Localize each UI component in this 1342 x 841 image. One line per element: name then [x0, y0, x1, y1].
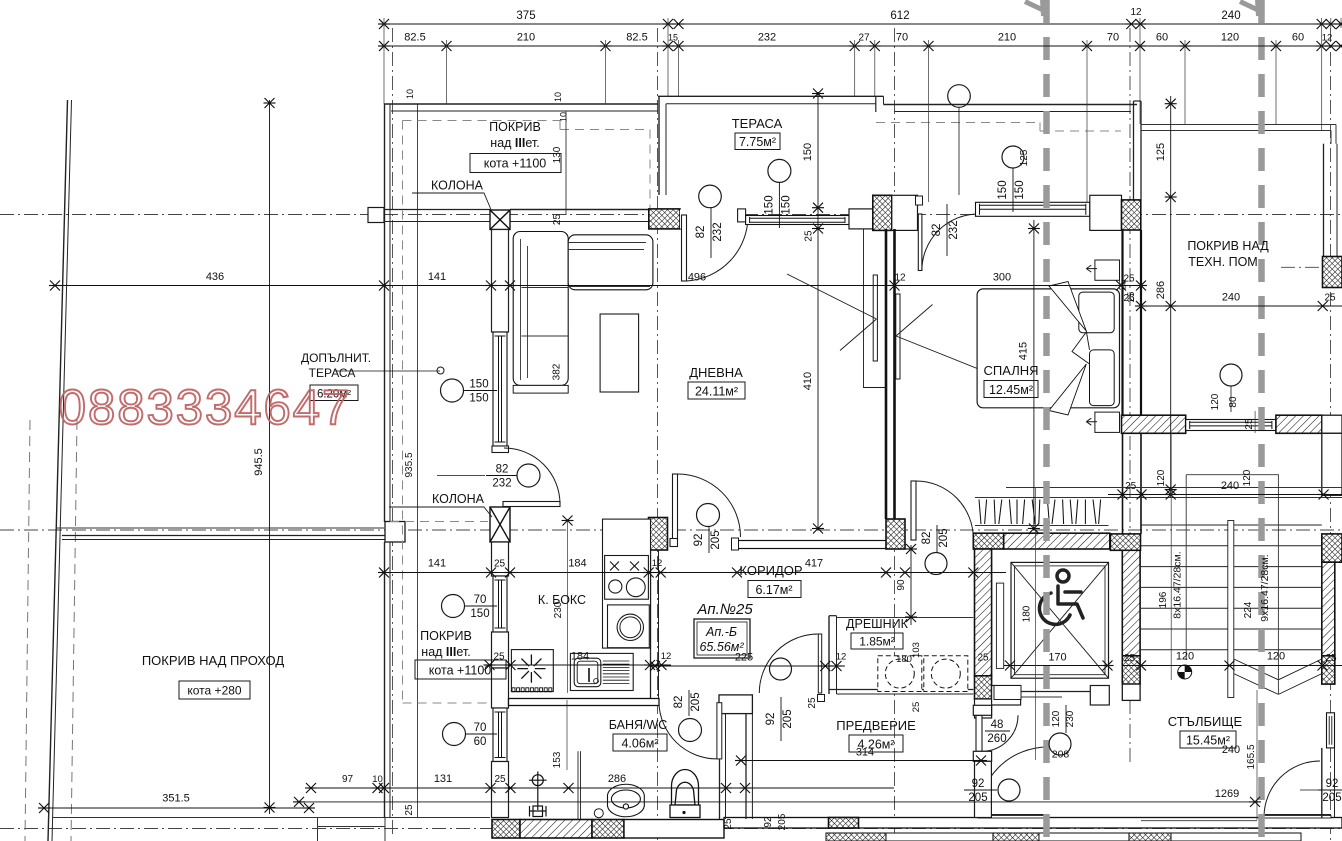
svg-text:25: 25 [1118, 280, 1129, 291]
svg-text:82.5: 82.5 [626, 32, 647, 44]
svg-text:97: 97 [342, 774, 354, 785]
svg-text:82: 82 [931, 224, 943, 237]
svg-text:70: 70 [474, 722, 487, 734]
svg-text:ПОКРИВ НАД ПРОХОД: ПОКРИВ НАД ПРОХОД [142, 653, 285, 668]
svg-text:25: 25 [1244, 418, 1255, 430]
stairwell east window lower [1327, 713, 1335, 748]
corridor west door swing arc [678, 474, 741, 537]
bath predverie wall block top [719, 695, 752, 714]
svg-text:120: 120 [1267, 651, 1285, 663]
roof inner edge line at 130 marker [565, 111, 567, 215]
svg-text:205: 205 [777, 813, 788, 830]
svg-text:ДРЕШНИК: ДРЕШНИК [846, 617, 909, 631]
elevator car box [1011, 562, 1109, 678]
stair landing edge lines [1006, 487, 1342, 489]
stairwell east wall crosshatched block lower [1322, 656, 1335, 684]
axis grid line D vertical [1129, 28, 1131, 762]
svg-text:150: 150 [780, 195, 792, 214]
stairwell east wall crosshatched block upper [1322, 534, 1342, 562]
washing machine dashed circle 1 [885, 659, 914, 688]
bed pillow top [1079, 292, 1114, 333]
washbasin oval [608, 784, 645, 817]
elevator guide rail rectangle [996, 583, 1003, 668]
axis grid line 1 horizontal [0, 214, 1342, 216]
toilet bowl [670, 770, 700, 818]
svg-text:92: 92 [693, 534, 705, 547]
svg-text:12: 12 [1130, 7, 1142, 18]
nightstand bottom with arrow [1095, 412, 1120, 432]
svg-text:60: 60 [1156, 32, 1168, 44]
tech south window 120/80 [1186, 420, 1276, 431]
svg-text:205: 205 [690, 692, 702, 711]
nightstand top with arrow [1095, 260, 1120, 280]
svg-text:82: 82 [496, 464, 509, 476]
sliding door panel living side [873, 275, 877, 361]
dryer dashed square 2 [924, 656, 968, 692]
svg-text:205: 205 [938, 528, 950, 547]
white pier east of terrace window [849, 209, 873, 229]
svg-text:935.5: 935.5 [404, 452, 415, 477]
leader dot additional terrace [335, 370, 440, 372]
dressing room south wall double line [829, 689, 973, 691]
marker circle tech room window 120/80 [1220, 364, 1242, 386]
white pier east of bedroom window [1090, 195, 1122, 230]
svg-text:12: 12 [836, 652, 847, 663]
roof dashed outline right vertical at axis B [649, 130, 651, 209]
svg-text:224: 224 [1243, 601, 1254, 618]
svg-text:0883334647: 0883334647 [59, 381, 352, 435]
dressing door swing arc [759, 634, 818, 693]
svg-text:1269: 1269 [1215, 788, 1239, 800]
dimension row kitchen 25 184 12 [485, 664, 671, 666]
svg-text:Ап.№25: Ап.№25 [696, 601, 753, 618]
marker circle living entry door 82/232 [517, 464, 540, 487]
svg-text:25: 25 [494, 559, 506, 570]
dimension 415 vertical bedroom [1033, 220, 1035, 530]
stairwell bottom boundary thin line [1141, 820, 1257, 822]
marker circle kitchen window 70/150 [442, 595, 465, 618]
sliding door swing diagonals living [787, 274, 877, 319]
svg-text:240: 240 [1222, 292, 1240, 304]
marker circle bath door 82/205 rotated [679, 719, 702, 742]
label terrace area box 7.75 [735, 133, 780, 150]
marker circle bedroom terrace door 82/232 rotated [948, 85, 971, 108]
tech room east wall double line [1323, 144, 1325, 257]
svg-text:12: 12 [894, 273, 906, 284]
south wall diagonal hatched segment under bath [520, 820, 592, 839]
svg-text:4.26м²: 4.26м² [857, 738, 894, 752]
lower floor wall outline below south wall left [318, 818, 386, 841]
svg-text:170: 170 [1048, 652, 1066, 664]
svg-text:25: 25 [804, 230, 815, 242]
site boundary dashed line left [25, 420, 30, 841]
svg-text:410: 410 [802, 372, 814, 390]
corridor south partition wall with end blocks [737, 541, 886, 549]
tech room east crosshatched block [1323, 257, 1342, 288]
svg-text:92: 92 [972, 778, 985, 790]
dimension 170 elevator [1009, 665, 1109, 667]
svg-text:120: 120 [1221, 32, 1239, 44]
dimension 120 230 208 elevator bottom [1034, 488, 1036, 761]
section line S2 top diagonal mark [1240, 2, 1258, 11]
tech south wall hatched segment east [1276, 415, 1322, 433]
sink drainboard lines [603, 661, 630, 683]
dimension 225 12 predverie [655, 665, 845, 667]
svg-text:382: 382 [552, 363, 563, 380]
bedroom door leaf 82/205 [911, 481, 916, 540]
svg-text:232: 232 [492, 478, 511, 490]
dimension row stairs top 25 240 [1108, 494, 1342, 496]
svg-text:ДОПЪЛНИТ.: ДОПЪЛНИТ. [301, 351, 371, 365]
svg-text:612: 612 [890, 10, 909, 22]
roof over IIIrd floor top wall inner line [391, 110, 658, 112]
washbasin faucet circle [594, 809, 603, 818]
svg-text:ПОКРИВ НАД: ПОКРИВ НАД [1187, 239, 1269, 253]
svg-text:417: 417 [805, 558, 823, 570]
dimension extension verticals from top rows [383, 18, 385, 104]
svg-text:103: 103 [911, 642, 922, 658]
svg-text:кота +280: кота +280 [187, 684, 242, 698]
svg-text:205: 205 [968, 792, 987, 804]
dotted strip under kitchen niche [512, 688, 552, 692]
terrace door swing arc 82/232 [687, 216, 749, 281]
svg-text:945.5: 945.5 [253, 448, 265, 476]
sliding door swing diagonals bedroom [896, 305, 933, 337]
shaft east wall opening jambs [973, 705, 991, 715]
svg-text:25: 25 [1126, 292, 1137, 303]
axis grid line A vertical [392, 28, 394, 838]
label Ap-B box double border [694, 619, 750, 658]
dimension 410 vertical living [817, 92, 819, 530]
bedroom entrance door leaf from terrace [918, 214, 922, 271]
dressing room north boundary thin line [837, 617, 974, 619]
west boundary wall lower segment [384, 542, 386, 818]
stair treads upper flight [1141, 524, 1322, 526]
bedroom south window [976, 202, 1090, 216]
stairwell west wall crosshatched block [1110, 534, 1140, 550]
terrace west wall double line [658, 96, 660, 195]
bed blanket fold triangles [1049, 282, 1090, 416]
kitchen sink counter outline [570, 653, 633, 690]
stairwell east wall white segment top [1322, 433, 1342, 495]
svg-text:230: 230 [1065, 710, 1076, 727]
bedroom door swing arc [916, 481, 973, 539]
stairwell south east wall bottom piece [1321, 748, 1323, 818]
roof dashed outline over terrace right part [876, 122, 1040, 124]
stair direction V lines lower flight [1234, 674, 1279, 695]
svg-text:70: 70 [1107, 32, 1119, 44]
elevator shaft top wall crosshatched block west [973, 533, 1003, 549]
label kota +1100 box kitchen side [415, 660, 506, 679]
marker circle bedroom window 150/150 rotated [1002, 146, 1024, 168]
svg-text:125: 125 [1155, 143, 1167, 161]
bedroom entrance door swing arc [922, 214, 979, 271]
kitchen oven block with circle [608, 605, 650, 648]
svg-text:КОЛОНА: КОЛОНА [431, 179, 484, 193]
svg-text:82: 82 [921, 532, 933, 545]
stair walk line start circle [1178, 665, 1192, 679]
elevator shaft top wall diagonal band [1004, 533, 1110, 549]
svg-text:ДНЕВНА: ДНЕВНА [689, 365, 743, 380]
svg-text:240: 240 [1221, 10, 1240, 22]
axis grid line 3 horizontal [0, 828, 1342, 830]
tech south wall white block at east end [1322, 415, 1342, 433]
door hinge block west wall [492, 446, 509, 453]
dimension row stairs bottom 120 120 25 [1122, 665, 1342, 667]
dryer dashed circle 2 [931, 659, 960, 688]
dimension 945.5 vertical line [269, 100, 271, 814]
west wall solid segment between windows [492, 632, 509, 668]
column K3 crosshatched at bedroom NE corner [1122, 200, 1141, 230]
column outline left of divider [864, 229, 887, 388]
elevator shaft west wall bottom white [975, 699, 992, 718]
svg-text:150: 150 [1014, 180, 1026, 199]
wheelchair accessibility symbol [1039, 570, 1083, 624]
svg-text:82: 82 [695, 226, 707, 239]
axis grid line 2 horizontal [0, 529, 1342, 531]
dimension 1269 bottom [297, 801, 1257, 803]
washing machine dashed square 1 [878, 656, 922, 692]
elevator car diagonals [1011, 562, 1109, 678]
svg-text:ТЕРАСА: ТЕРАСА [732, 116, 783, 131]
svg-text:70: 70 [474, 594, 487, 606]
sofa seat division lines [522, 287, 569, 289]
svg-text:25: 25 [404, 804, 415, 816]
living bedroom divider wall thick lines [885, 229, 888, 519]
svg-text:415: 415 [1018, 342, 1030, 360]
living room entry door swing arc 82/232 [504, 448, 560, 504]
kitchen niche box with star symbol [511, 650, 553, 692]
corridor west door hinge block [670, 539, 678, 547]
svg-text:ПОКРИВ: ПОКРИВ [420, 629, 472, 643]
axis grid line B vertical [657, 28, 659, 841]
bath door leaf 82/205 [717, 703, 722, 759]
bedroom top wall outer line [884, 104, 1138, 106]
svg-text:К. БОКС: К. БОКС [538, 593, 586, 607]
svg-text:кота +1100: кота +1100 [484, 157, 547, 171]
west wall solid segment kitchen upper [492, 542, 509, 576]
elevator door slide lines [1021, 691, 1090, 693]
living room north wall solid segment [510, 209, 649, 211]
top dimension chain row 2 [384, 45, 1341, 47]
sofa bottom armrest [513, 385, 568, 393]
svg-text:ПРЕДВЕРИЕ: ПРЕДВЕРИЕ [836, 718, 916, 733]
svg-text:над IIIет.: над IIIет. [421, 645, 470, 659]
svg-text:232: 232 [712, 222, 724, 241]
svg-text:232: 232 [758, 32, 776, 44]
svg-text:120: 120 [1210, 393, 1221, 410]
svg-text:92: 92 [765, 713, 777, 726]
south wall crosshatched block under bath east [592, 820, 624, 839]
bath west window 70/60 [493, 708, 507, 762]
bedroom east wall lower thick lines [1121, 230, 1123, 415]
svg-text:25: 25 [493, 652, 505, 663]
dimension row corridor 141 25 184 12 417 [384, 572, 1006, 574]
bed outline rounded [977, 289, 1119, 408]
bath east wall double line [719, 714, 721, 819]
column K2 crosshatched between terrace and bedroom terrace [873, 195, 892, 230]
svg-text:25: 25 [494, 774, 506, 785]
svg-text:436: 436 [206, 271, 224, 283]
dimension 351.5 roof passage [42, 807, 311, 809]
terrace window in south wall [746, 216, 849, 225]
axis grid line C vertical [894, 28, 896, 841]
south wall band of predverie and stairwell [724, 818, 1342, 829]
dimension 90 vertical at bedroom door [910, 545, 912, 625]
living room west window 150/150 [493, 332, 507, 446]
stairwell east wall diagonal hatch band [1322, 562, 1335, 656]
svg-text:210: 210 [998, 32, 1016, 44]
kitchen sink bowl [574, 658, 601, 687]
shower floor drain symbol [529, 771, 547, 816]
column K6 crosshatched kitchen NE [649, 518, 668, 551]
svg-text:286: 286 [1155, 281, 1167, 299]
column K5 crosshatched KOLONA mid west wall [490, 507, 510, 542]
svg-text:351.5: 351.5 [162, 793, 190, 805]
site boundary slanted double line [48, 100, 68, 841]
sofa back cushion lines [521, 239, 528, 380]
svg-text:120: 120 [1156, 469, 1167, 486]
svg-text:92: 92 [1326, 778, 1339, 790]
sliding door panel bedroom side [896, 294, 900, 379]
axis stub horizontal top-right tech room [1281, 266, 1342, 268]
svg-text:кота +1100: кота +1100 [429, 664, 492, 678]
additional terrace east edge thin line [417, 104, 419, 818]
svg-text:БАНЯ/WC: БАНЯ/WC [609, 718, 668, 732]
svg-text:8x16.47/28см.: 8x16.47/28см. [1172, 551, 1184, 618]
svg-text:120: 120 [1242, 469, 1253, 486]
svg-text:82.5: 82.5 [404, 32, 425, 44]
svg-text:205: 205 [710, 530, 722, 549]
label dnevna area box 24.11 [688, 382, 745, 399]
terrace NE step corner [875, 96, 877, 112]
marker circle bath window 70/60 [443, 723, 466, 746]
svg-text:165.5: 165.5 [1246, 744, 1257, 769]
south wall crosshatched block below bath west [492, 820, 520, 839]
stair central stringer [1228, 521, 1234, 698]
entrance door swing arc to stairwell [982, 715, 1018, 751]
svg-text:25: 25 [723, 818, 734, 830]
svg-text:150: 150 [997, 180, 1009, 199]
section line S2 thick gray dashed [1258, 0, 1265, 841]
predverie west wall double line [745, 714, 747, 819]
closet hanger rail bedroom south [975, 497, 1109, 499]
stairwell west wall white bottom segment [1122, 684, 1140, 700]
svg-text:150: 150 [470, 608, 489, 620]
svg-text:120: 120 [1051, 710, 1062, 727]
svg-text:286: 286 [608, 773, 626, 785]
svg-text:25: 25 [977, 653, 989, 664]
svg-text:ТЕХН. ПОМ: ТЕХН. ПОМ [1188, 255, 1257, 269]
svg-text:10: 10 [405, 89, 415, 99]
svg-text:48: 48 [991, 719, 1004, 731]
tech south wall hatched segment west [1122, 415, 1186, 433]
stairwell south door threshold [1261, 814, 1331, 816]
svg-text:25: 25 [1124, 653, 1136, 664]
svg-text:80: 80 [1228, 396, 1239, 408]
svg-text:10: 10 [372, 774, 383, 785]
stairwell south door swing arc 92/205 [1264, 761, 1320, 817]
stairwell west wall crosshatched block lower [1122, 656, 1140, 684]
elevator shaft bottom wall pieces [992, 686, 1021, 706]
svg-text:150: 150 [469, 379, 488, 391]
bath door swing arc [659, 703, 717, 759]
marker circle exit door 92/205 [998, 779, 1020, 801]
sofa chaise back cushion lines [568, 243, 646, 250]
marker circle dressing door 92/205 rotated [770, 658, 792, 680]
small corner post SW terrace [385, 522, 405, 543]
terrace door opening white gap [680, 210, 738, 229]
svg-text:90: 90 [896, 579, 907, 591]
roof dashed outline left [402, 121, 404, 704]
label kota +280 box [179, 681, 250, 699]
svg-text:7.75м²: 7.75м² [739, 135, 776, 149]
svg-text:15: 15 [668, 33, 678, 43]
column K1 crosshatched at living NW corner [649, 209, 680, 229]
dimension 230 rotated kitchen [567, 519, 569, 693]
terrace door leaf into living room [682, 215, 687, 281]
marker circle corridor west door 92/205 rotated [697, 504, 720, 527]
star ventilation symbol [517, 655, 545, 683]
bedroom east wall upper double line [1133, 101, 1135, 200]
living room entry door leaf horizontal [503, 502, 560, 507]
svg-text:180: 180 [896, 654, 912, 665]
dimension 240 25 horizontal tech room [1141, 305, 1342, 307]
stove cross marks [610, 562, 639, 571]
south wall crosshatched block at predverie [829, 818, 859, 829]
svg-text:25: 25 [552, 214, 563, 226]
dressing door leaf 92/205 [818, 634, 821, 693]
terrace top wall outer line [658, 95, 884, 97]
bath north wall thick line [509, 699, 660, 706]
stair opening outline rectangle [1186, 475, 1278, 695]
svg-text:150: 150 [763, 195, 775, 214]
svg-text:375: 375 [516, 10, 535, 22]
sofa L-shape outer [513, 232, 568, 386]
svg-text:125: 125 [1019, 149, 1030, 166]
svg-text:12: 12 [1322, 33, 1333, 44]
kitchen west window 70/150 [493, 576, 507, 632]
coffee table rectangle [600, 314, 639, 392]
section line S1 top diagonal mark [1025, 2, 1043, 11]
svg-text:232: 232 [948, 220, 960, 239]
roof dashed outline jog at column level [390, 521, 488, 523]
marker circle bedroom door 82/205 rotated [925, 553, 947, 575]
svg-text:Ап.-Б: Ап.-Б [705, 625, 737, 639]
site boundary dashed line right of slant [71, 420, 77, 841]
svg-text:12: 12 [661, 651, 672, 662]
terrace door hinge block [738, 209, 746, 222]
dimension 125 286 vertical right [1170, 96, 1172, 498]
dressing room west wall double line [828, 616, 830, 694]
stairwell west wall white segment top [1122, 433, 1124, 534]
dimension 436 141 496 12 300 horizontal line [55, 285, 1141, 287]
marker circle living west window 150/150 [441, 379, 464, 402]
svg-text:4.06м²: 4.06м² [621, 737, 658, 751]
svg-text:ПОКРИВ: ПОКРИВ [489, 120, 541, 134]
svg-text:153: 153 [552, 751, 563, 768]
kitchen east wall double line [650, 550, 652, 702]
exit door swing arc 92/205 predverie [978, 747, 1048, 817]
wall block west end of south terrace wall [368, 208, 384, 223]
elevator shaft west wall crosshatched block [975, 676, 992, 699]
svg-text:25: 25 [911, 702, 922, 713]
lower floor wall fragments bottom strip [826, 833, 1301, 841]
exit door threshold lines predverie [978, 814, 1048, 816]
bed pillow bottom [1090, 350, 1115, 406]
svg-text:КОРИДОР: КОРИДОР [739, 563, 802, 578]
top dimension chain row 1 [384, 23, 1341, 25]
